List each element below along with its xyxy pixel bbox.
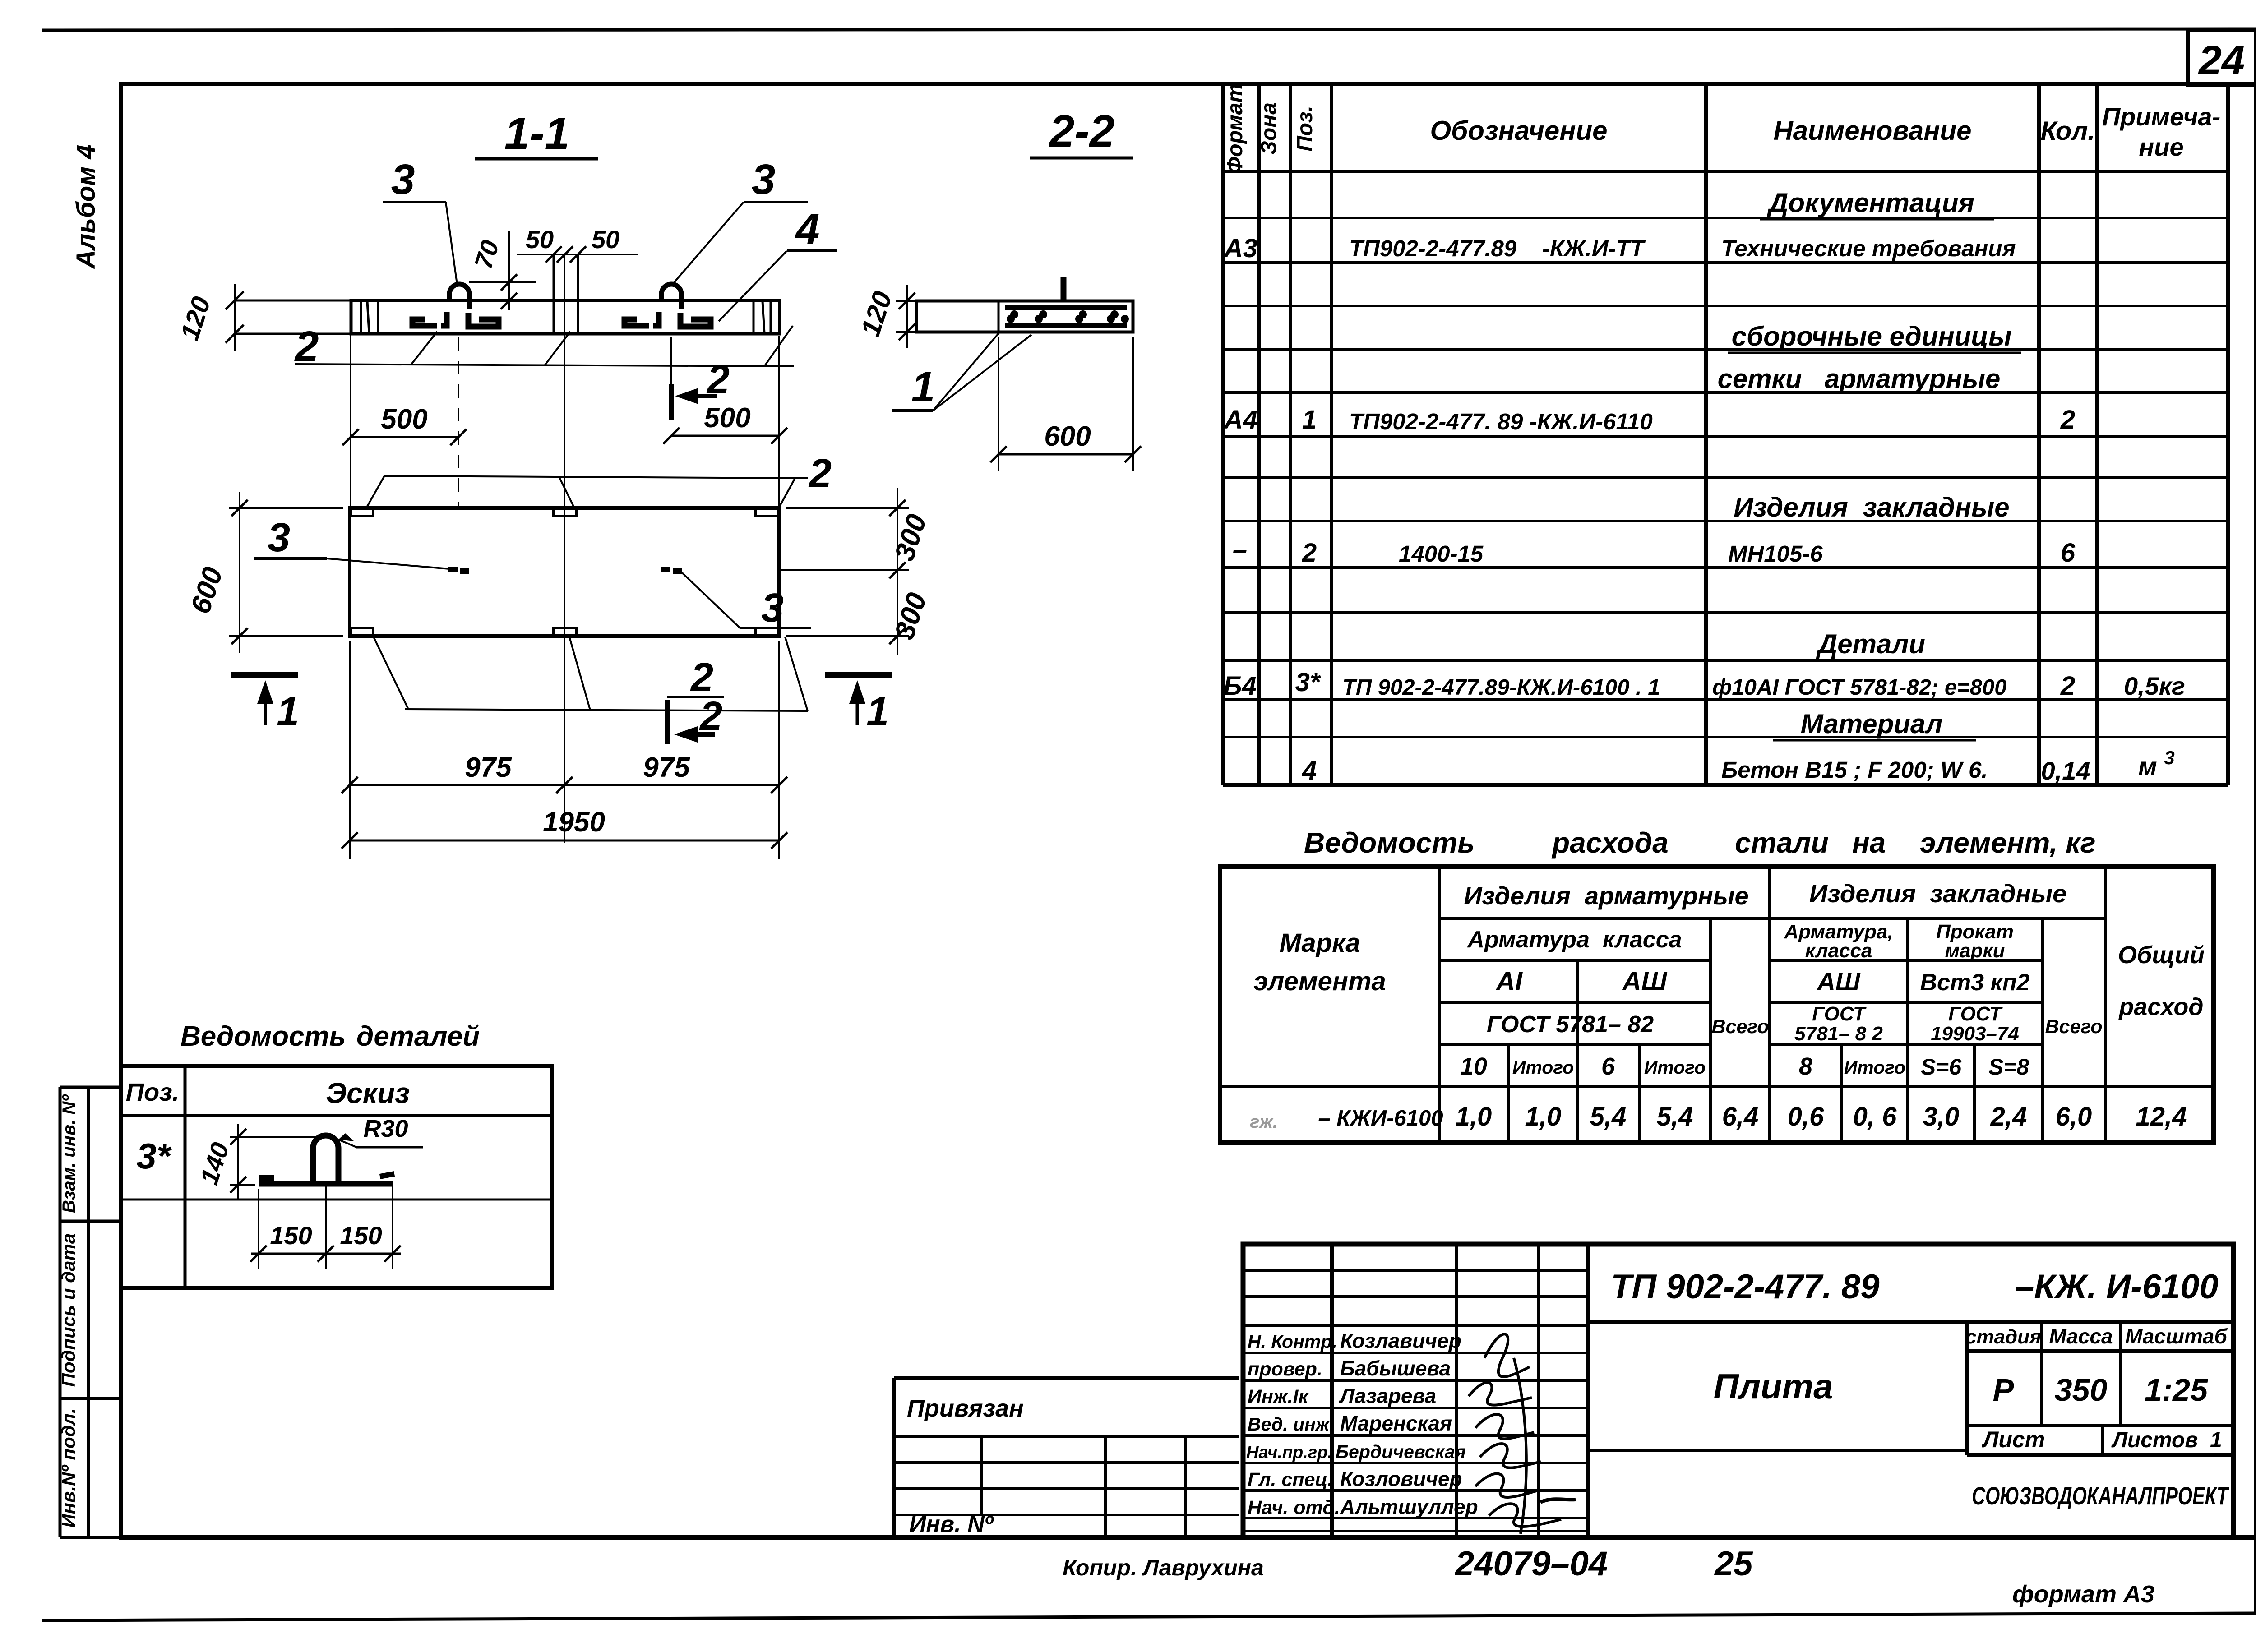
svg-text:3: 3 xyxy=(391,156,415,203)
svg-text:1,0: 1,0 xyxy=(1525,1102,1562,1131)
svg-text:2: 2 xyxy=(706,357,730,402)
svg-text:Зона: Зона xyxy=(1257,102,1281,155)
svg-text:Изделия арматурные: Изделия арматурные xyxy=(1464,881,1748,910)
dim 70 extension xyxy=(469,281,536,283)
loop mark left in plan xyxy=(448,567,458,572)
embedded plate bottom-right xyxy=(756,628,778,635)
svg-text:ГОСТ: ГОСТ xyxy=(1948,1003,2003,1025)
svg-text:1950: 1950 xyxy=(543,807,605,838)
plate outline section 1-1 xyxy=(351,300,780,334)
svg-text:Документация: Документация xyxy=(1766,188,1974,218)
sheet number box 24 xyxy=(2188,30,2256,85)
svg-text:сетки арматурные: сетки арматурные xyxy=(1718,364,2001,394)
svg-text:Бетон В15 ; F 200; W 6.: Бетон В15 ; F 200; W 6. xyxy=(1721,757,1988,783)
svg-text:Итого: Итого xyxy=(1512,1057,1574,1078)
svg-text:Изделия закладные: Изделия закладные xyxy=(1734,492,2009,522)
svg-text:6: 6 xyxy=(2061,538,2076,568)
dim 120 tick top xyxy=(226,291,244,309)
svg-text:3: 3 xyxy=(761,586,784,631)
svg-text:Итого: Итого xyxy=(1844,1057,1905,1078)
svg-text:1: 1 xyxy=(866,689,889,734)
svg-text:стадия: стадия xyxy=(1965,1326,2041,1348)
details table grid xyxy=(184,1066,187,1288)
svg-text:Марка: Марка xyxy=(1279,928,1360,958)
sheet bottom edge line xyxy=(42,1613,2256,1620)
anchor hooks right loop xyxy=(624,319,649,326)
cut mark 2 lower xyxy=(665,700,670,744)
svg-text:ТП 902-2-477. 89: ТП 902-2-477. 89 xyxy=(1611,1268,1879,1306)
svg-text:элемента: элемента xyxy=(1253,967,1386,996)
svg-text:Козловичер: Козловичер xyxy=(1340,1467,1462,1490)
privyazan block border xyxy=(894,1378,1239,1537)
svg-text:Альбом 4: Альбом 4 xyxy=(71,144,101,269)
svg-text:– КЖИ-6100: – КЖИ-6100 xyxy=(1318,1106,1443,1131)
svg-text:0,5кг: 0,5кг xyxy=(2124,672,2185,700)
svg-text:провер.: провер. xyxy=(1248,1358,1322,1380)
view arrow 1 left xyxy=(231,672,298,678)
svg-text:Вст3 кп2: Вст3 кп2 xyxy=(1920,969,2029,996)
svg-text:Лист: Лист xyxy=(1982,1427,2045,1452)
cut mark 2 upper xyxy=(669,384,674,420)
svg-text:Общий: Общий xyxy=(2118,941,2205,969)
svg-text:2: 2 xyxy=(1302,538,1317,568)
dim 70 ticks xyxy=(501,274,517,291)
svg-text:5,4: 5,4 xyxy=(1590,1102,1627,1131)
svg-text:класса: класса xyxy=(1805,940,1872,962)
lifting loop left xyxy=(449,284,469,309)
svg-text:12,4: 12,4 xyxy=(2136,1102,2187,1131)
svg-text:ТП902-2-477.89 -КЖ.И-ТТ: ТП902-2-477.89 -КЖ.И-ТТ xyxy=(1349,235,1646,261)
svg-text:Гл. спец.: Гл. спец. xyxy=(1248,1469,1333,1490)
svg-text:Р: Р xyxy=(1993,1372,2014,1407)
loop mark right in plan xyxy=(661,567,670,572)
dim 70 vertical xyxy=(508,231,510,310)
svg-text:1: 1 xyxy=(2210,1428,2222,1452)
svg-text:Взам. инв. Nº: Взам. инв. Nº xyxy=(59,1094,79,1213)
svg-text:24079–04: 24079–04 xyxy=(1454,1545,1608,1583)
svg-text:Б4: Б4 xyxy=(1223,671,1256,701)
dim 600 plan left xyxy=(229,507,343,509)
svg-text:Альтшуллер: Альтшуллер xyxy=(1340,1495,1478,1518)
svg-text:Наименование: Наименование xyxy=(1773,115,1971,146)
svg-text:расхода: расхода xyxy=(1551,826,1669,859)
svg-text:2: 2 xyxy=(2060,405,2075,434)
specification table grid xyxy=(1223,84,2228,785)
svg-text:сборочные единицы: сборочные единицы xyxy=(1732,321,2012,351)
svg-text:975: 975 xyxy=(643,752,690,783)
svg-text:ГОСТ: ГОСТ xyxy=(1812,1003,1867,1025)
svg-text:R30: R30 xyxy=(363,1115,408,1142)
svg-text:Поз.: Поз. xyxy=(126,1078,180,1106)
svg-text:ние: ние xyxy=(2139,133,2183,161)
svg-text:ф10АI ГОСТ 5781-82; е=800: ф10АI ГОСТ 5781-82; е=800 xyxy=(1712,675,2006,700)
signatures squiggles xyxy=(1469,1334,1561,1534)
loop axis left dashed xyxy=(458,337,459,507)
view arrow 1 right xyxy=(825,672,892,678)
svg-text:Нач. отд.: Нач. отд. xyxy=(1248,1497,1340,1518)
svg-text:АI: АI xyxy=(1495,967,1523,996)
svg-text:формат А3: формат А3 xyxy=(2012,1581,2154,1608)
svg-text:Инв. Nº: Инв. Nº xyxy=(909,1511,994,1537)
embedded plate top-middle xyxy=(554,509,576,516)
svg-text:3: 3 xyxy=(268,515,290,560)
svg-text:0, 6: 0, 6 xyxy=(1853,1102,1897,1131)
svg-text:8: 8 xyxy=(1799,1053,1812,1080)
svg-text:Кол.: Кол. xyxy=(2040,116,2095,146)
embedded plate bottom-left xyxy=(351,628,373,635)
plate outline section 2-2 xyxy=(916,301,1133,332)
svg-text:1,0: 1,0 xyxy=(1456,1102,1492,1131)
anchor hooks left loop xyxy=(412,319,437,326)
dim 300 300 plan right xyxy=(786,507,909,509)
embedded plate top-right xyxy=(756,509,778,516)
svg-text:2,4: 2,4 xyxy=(1990,1102,2027,1131)
svg-text:Арматура класса: Арматура класса xyxy=(1466,927,1682,953)
svg-text:Масштаб: Масштаб xyxy=(2125,1324,2228,1348)
svg-text:СОЮЗВОДОКАНАЛПРОЕКТ: СОЮЗВОДОКАНАЛПРОЕКТ xyxy=(1972,1481,2230,1510)
sheet top edge line xyxy=(42,29,2256,30)
svg-text:4: 4 xyxy=(795,205,820,253)
svg-text:Плита: Плита xyxy=(1713,1366,1833,1406)
svg-text:Листов: Листов xyxy=(2111,1428,2198,1452)
svg-text:3*: 3* xyxy=(136,1136,172,1176)
svg-text:19903–74: 19903–74 xyxy=(1931,1023,2019,1045)
svg-text:Маренская: Маренская xyxy=(1340,1412,1452,1435)
loop tick above plate xyxy=(1061,277,1067,301)
sketch dim 140 xyxy=(230,1136,316,1138)
signature rows horizontals xyxy=(1243,1270,1588,1531)
svg-text:Копир. Лаврухина: Копир. Лаврухина xyxy=(1063,1555,1264,1580)
mesh bottom bar xyxy=(1005,323,1127,328)
dim 500 left line xyxy=(351,436,458,438)
svg-text:стали: стали xyxy=(1735,826,1829,859)
lifting loop right xyxy=(661,284,681,309)
svg-text:3*: 3* xyxy=(1295,668,1321,697)
plate top edge extension tail xyxy=(235,300,351,302)
mesh bottom dots xyxy=(1007,315,1015,323)
svg-text:МН105-6: МН105-6 xyxy=(1728,541,1823,567)
dim 1950 xyxy=(350,840,779,842)
svg-text:Примеча-: Примеча- xyxy=(2102,102,2220,131)
sheet right edge line xyxy=(2254,29,2256,1614)
svg-text:150: 150 xyxy=(340,1221,382,1250)
svg-text:50: 50 xyxy=(592,225,619,254)
svg-text:6,4: 6,4 xyxy=(1722,1102,1759,1131)
svg-text:Обозначение: Обозначение xyxy=(1430,115,1607,146)
svg-text:6,0: 6,0 xyxy=(2056,1102,2092,1131)
svg-text:24: 24 xyxy=(2198,37,2245,83)
svg-text:2: 2 xyxy=(690,655,713,700)
svg-text:А4: А4 xyxy=(1223,405,1257,434)
dim 120 sec22 xyxy=(896,300,916,302)
svg-text:Инв.Nº подл.: Инв.Nº подл. xyxy=(58,1408,79,1527)
svg-text:Бабышева: Бабышева xyxy=(1340,1357,1451,1380)
middle axis line xyxy=(564,254,565,843)
details table border xyxy=(121,1066,552,1288)
svg-text:1: 1 xyxy=(1302,405,1317,434)
svg-text:3: 3 xyxy=(752,156,776,203)
plan outline xyxy=(350,508,779,636)
svg-text:2: 2 xyxy=(808,451,832,496)
left end zone hatch xyxy=(360,301,362,333)
svg-text:5,4: 5,4 xyxy=(1657,1102,1693,1131)
svg-text:600: 600 xyxy=(1044,421,1091,452)
dim 500 right line xyxy=(671,435,779,437)
svg-text:10: 10 xyxy=(1460,1053,1487,1080)
mesh top dots xyxy=(1010,310,1018,318)
svg-text:500: 500 xyxy=(381,404,427,435)
svg-text:2-2: 2-2 xyxy=(1049,106,1115,157)
svg-text:–: – xyxy=(1233,535,1247,564)
svg-text:м: м xyxy=(2138,752,2157,780)
svg-text:Нач.пр.гр.: Нач.пр.гр. xyxy=(1246,1443,1332,1462)
svg-text:25: 25 xyxy=(1714,1545,1753,1583)
left stamp column boxes xyxy=(60,1087,121,1537)
dim 600 sec22 xyxy=(998,337,999,471)
svg-text:Вед. инж.: Вед. инж. xyxy=(1248,1414,1334,1435)
svg-text:1:25: 1:25 xyxy=(2145,1372,2208,1407)
svg-text:975: 975 xyxy=(465,752,512,783)
svg-text:деталей: деталей xyxy=(356,1021,480,1052)
svg-text:2: 2 xyxy=(699,694,722,739)
svg-text:5781– 8 2: 5781– 8 2 xyxy=(1794,1023,1883,1045)
svg-text:Всего: Всего xyxy=(1711,1016,1769,1038)
embedded plate bottom-middle xyxy=(554,628,576,635)
svg-text:Технические требования: Технические требования xyxy=(1721,235,2016,261)
svg-text:Формат: Формат xyxy=(1223,83,1247,174)
svg-text:на: на xyxy=(1852,826,1886,859)
svg-text:Материал: Материал xyxy=(1801,709,1943,739)
left plate end extension line xyxy=(350,301,351,508)
svg-text:Поз.: Поз. xyxy=(1293,106,1317,152)
svg-text:0,14: 0,14 xyxy=(2041,757,2090,785)
svg-text:Всего: Всего xyxy=(2045,1016,2102,1038)
steel table grid xyxy=(1220,867,2214,1143)
svg-text:350: 350 xyxy=(2055,1372,2108,1407)
sketch: bent bar detail xyxy=(259,1181,393,1187)
svg-text:Ведомость: Ведомость xyxy=(1304,826,1475,859)
svg-text:Итого: Итого xyxy=(1644,1057,1706,1078)
middle seam lines xyxy=(553,254,555,334)
svg-text:Масса: Масса xyxy=(2049,1324,2113,1348)
svg-text:элемент, кг: элемент, кг xyxy=(1920,826,2096,859)
svg-text:АШ: АШ xyxy=(1622,967,1668,996)
svg-text:6: 6 xyxy=(1601,1053,1615,1080)
svg-text:1: 1 xyxy=(277,689,299,734)
svg-text:марки: марки xyxy=(1945,940,2005,962)
svg-text:Ведомость: Ведомость xyxy=(180,1021,346,1052)
svg-text:Н. Контр.: Н. Контр. xyxy=(1248,1331,1337,1352)
embedded plate top-left xyxy=(351,509,373,516)
right end zone hatch xyxy=(753,301,755,333)
svg-text:3: 3 xyxy=(2164,747,2174,768)
svg-text:ГОСТ 5781– 82: ГОСТ 5781– 82 xyxy=(1487,1011,1654,1038)
svg-text:Привязан: Привязан xyxy=(907,1395,1024,1422)
svg-text:Эскиз: Эскиз xyxy=(326,1077,410,1109)
plate bottom edge extension tail xyxy=(235,333,351,335)
svg-text:500: 500 xyxy=(704,402,750,434)
sketch dims 150 150 xyxy=(258,1189,259,1269)
loop axis right xyxy=(670,337,672,384)
svg-text:Бердичевская: Бердичевская xyxy=(1336,1441,1466,1462)
svg-text:2: 2 xyxy=(2060,671,2075,701)
section label underline xyxy=(1030,157,1133,160)
svg-text:3,0: 3,0 xyxy=(1923,1102,1960,1131)
dim 120 tick bottom xyxy=(226,325,244,343)
svg-text:1-1: 1-1 xyxy=(504,108,570,159)
dim 50 ticks xyxy=(546,246,562,263)
dash after last signature xyxy=(1540,1499,1576,1502)
svg-text:50: 50 xyxy=(526,225,554,254)
svg-text:Инж.Iк: Инж.Iк xyxy=(1248,1386,1309,1407)
svg-text:гж.: гж. xyxy=(1250,1112,1278,1132)
dim 120 line xyxy=(234,284,236,351)
steel table outer border xyxy=(1220,867,2214,1143)
dim 50 50 line xyxy=(517,254,638,255)
svg-text:S=8: S=8 xyxy=(1988,1054,2029,1080)
svg-text:Лазарева: Лазарева xyxy=(1339,1384,1436,1407)
svg-text:–КЖ. И-6100: –КЖ. И-6100 xyxy=(2015,1268,2219,1306)
svg-text:1400-15: 1400-15 xyxy=(1399,541,1484,567)
title block outer border xyxy=(1243,1244,2233,1537)
svg-text:ТП 902-2-477.89-КЖ.И-6100 . 1: ТП 902-2-477.89-КЖ.И-6100 . 1 xyxy=(1342,675,1660,700)
svg-text:ТП902-2-477. 89 -КЖ.И-6110: ТП902-2-477. 89 -КЖ.И-6110 xyxy=(1349,409,1653,434)
svg-text:1: 1 xyxy=(911,363,935,411)
svg-text:150: 150 xyxy=(270,1221,312,1250)
svg-text:S=6: S=6 xyxy=(1921,1054,1962,1080)
svg-text:0,6: 0,6 xyxy=(1788,1102,1824,1131)
svg-text:расход: расход xyxy=(2118,993,2203,1020)
svg-text:А3: А3 xyxy=(1223,234,1257,263)
svg-text:Детали: Детали xyxy=(1816,629,1925,659)
svg-text:4: 4 xyxy=(1302,756,1317,785)
mesh top bar xyxy=(1005,305,1127,310)
section label underline xyxy=(475,157,598,161)
svg-text:Подпись и дата: Подпись и дата xyxy=(58,1233,79,1387)
dim 975 975 xyxy=(349,641,351,859)
svg-text:Изделия закладные: Изделия закладные xyxy=(1809,879,2067,908)
svg-text:Козлавичер: Козлавичер xyxy=(1340,1329,1461,1352)
svg-text:АШ: АШ xyxy=(1816,967,1860,996)
title block verticals xyxy=(1332,1244,2233,1537)
right plate end extension line xyxy=(778,336,780,508)
joint line tail/element xyxy=(998,301,1000,332)
